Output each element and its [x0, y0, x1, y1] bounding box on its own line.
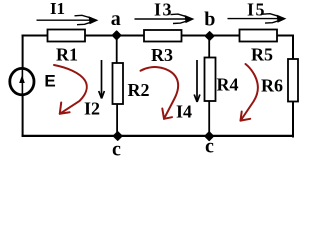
- branch arrow I2 direction: [99, 60, 105, 99]
- svg-text:I2: I2: [84, 98, 100, 118]
- wire top segment left (corner to R1): [22, 35, 49, 37]
- wire branch a upper: [116, 36, 118, 64]
- svg-text:R6: R6: [261, 75, 283, 95]
- node b dot: [206, 32, 214, 40]
- wire left vertical lower: [22, 94, 24, 137]
- wire branch b upper: [208, 36, 210, 58]
- node c2 dot: [205, 132, 213, 140]
- resistor R6: [288, 59, 298, 102]
- resistor R1: [48, 30, 86, 42]
- resistor R5: [240, 30, 278, 42]
- wire branch a lower: [116, 104, 118, 137]
- wire bottom: [22, 135, 294, 137]
- svg-text:R3: R3: [151, 45, 173, 65]
- svg-text:I1: I1: [50, 0, 65, 18]
- svg-text:E: E: [44, 72, 55, 91]
- svg-text:I5: I5: [247, 0, 266, 19]
- source E circle: [10, 68, 34, 94]
- node c1 dot: [114, 132, 122, 140]
- svg-text:a: a: [111, 8, 121, 30]
- source E arrowhead: [19, 75, 25, 83]
- svg-text:R1: R1: [56, 44, 78, 64]
- current arrow I5: [228, 14, 284, 23]
- wire branch b lower: [208, 101, 210, 137]
- svg-text:b: b: [204, 9, 215, 31]
- loop arrow mesh 3 (red): [241, 64, 258, 121]
- svg-text:I4: I4: [176, 101, 192, 121]
- svg-text:I3: I3: [154, 0, 173, 19]
- resistor R3: [144, 30, 182, 42]
- wire right vertical lower: [292, 101, 294, 138]
- branch arrow I4 direction: [194, 60, 200, 102]
- loop arrow mesh 1 (red): [54, 65, 87, 114]
- current arrow I3: [135, 14, 192, 23]
- svg-text:c: c: [112, 139, 121, 157]
- svg-text:c: c: [205, 136, 214, 158]
- wire top segment R1 to R3: [85, 35, 145, 37]
- svg-text:R2: R2: [128, 80, 150, 100]
- wire top segment R5 to right corner: [277, 35, 295, 37]
- wire right vertical upper: [292, 35, 294, 60]
- current arrow I1: [37, 15, 96, 24]
- svg-text:R5: R5: [251, 45, 273, 65]
- source E internal wire: [21, 69, 23, 95]
- wire left vertical upper: [22, 35, 24, 70]
- svg-text:R4: R4: [217, 75, 239, 95]
- resistor R4: [205, 58, 216, 102]
- wire top segment R3 to R5: [181, 35, 240, 37]
- loop arrow mesh 2 (red): [141, 67, 179, 119]
- node a dot: [113, 31, 121, 39]
- resistor R2: [113, 63, 124, 104]
